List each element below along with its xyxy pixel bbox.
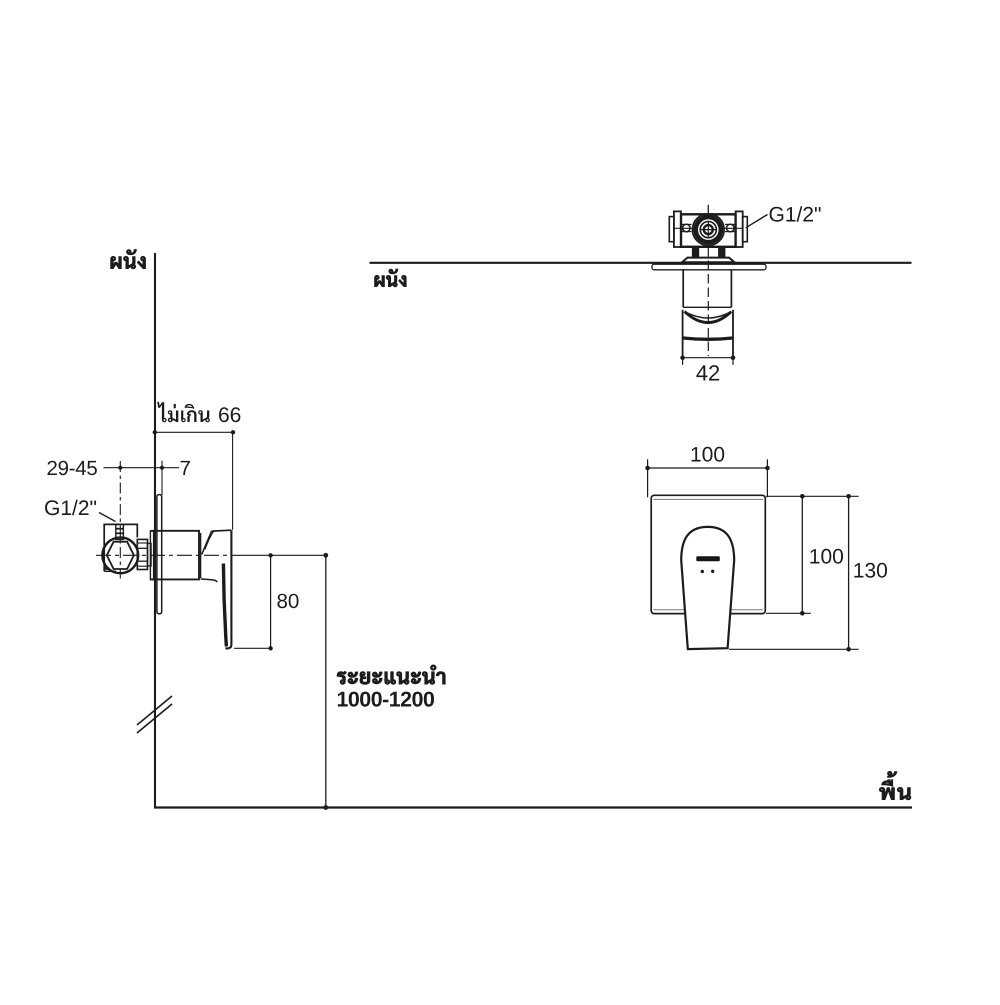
dimension max-66 line <box>154 431 233 433</box>
handle lever blade (side view) <box>223 564 226 647</box>
dim text 100 right <box>810 549 843 564</box>
escutcheon plate (front view) <box>651 495 765 613</box>
dimension 100 top (front view) <box>647 459 649 497</box>
handle neck bottom (side view) <box>201 579 218 582</box>
valve body (side view) <box>150 531 199 580</box>
valve neck columns <box>692 247 699 258</box>
handle sides (top view) <box>682 310 684 358</box>
inlet fitting nut <box>116 524 124 539</box>
dimension label max 66 <box>157 402 210 422</box>
left inlet flange <box>674 211 681 247</box>
inlet hex nut <box>107 542 134 569</box>
valve body (top view) <box>681 214 736 247</box>
inlet pipe circle G1/2 <box>102 537 138 573</box>
handle neck (top view) <box>682 270 684 308</box>
escutcheon plate (top view) <box>652 264 766 270</box>
dim text 100 top <box>692 447 725 462</box>
left port circle <box>682 223 692 225</box>
handle tip band (top view) <box>683 338 732 339</box>
dimension 100 right (front view) <box>801 496 803 613</box>
valve base trapezoid <box>682 258 735 263</box>
label text G1/2 top <box>770 206 821 221</box>
inlet fitting bottom bracket <box>104 570 116 572</box>
right inlet flange <box>736 211 743 247</box>
label recommended distance ระยะแนะนำ <box>337 665 445 684</box>
handle back edge (side view) <box>225 530 231 648</box>
cartridge crosshair <box>707 221 709 238</box>
label text G1/2 side <box>45 500 96 515</box>
centerline horizontal through valve <box>96 554 233 556</box>
centerline vertical through inlet <box>119 461 121 579</box>
union connector rings <box>137 539 147 569</box>
recommended height line <box>325 555 327 807</box>
dim text 42 <box>696 365 719 380</box>
extension lines right (front view) <box>766 495 859 497</box>
handle logo bar <box>696 556 720 561</box>
wall line (top view) <box>370 262 912 264</box>
floor line <box>154 806 912 808</box>
inlet fitting top bracket <box>104 524 137 571</box>
handle top edge (side view) <box>212 529 232 532</box>
dimension 42 <box>683 357 733 359</box>
valve body flange behind wall <box>150 531 153 580</box>
label floor พื้น <box>879 772 910 800</box>
dimension connector line to height dims <box>233 554 326 556</box>
handle neck slant (side view) <box>202 531 212 554</box>
escutcheon plate (side view) <box>157 495 162 614</box>
wall break marks <box>137 696 172 725</box>
dim text 80 <box>277 594 298 609</box>
dim text 130 <box>854 563 887 578</box>
label text 1000-1200 <box>338 692 434 707</box>
dim text 66 <box>219 407 240 422</box>
center line (top view) <box>707 205 709 214</box>
dim text 7 <box>181 461 190 475</box>
dim text 29-45 <box>48 461 97 476</box>
label wall (side view) ผนัง <box>111 250 146 269</box>
leader G1/2 (side view) <box>99 513 116 522</box>
right port circle <box>725 223 735 225</box>
label wall (top view) ผนัง <box>375 269 406 287</box>
handle dome arcs (top view) <box>685 312 732 319</box>
valve cartridge circles <box>693 214 725 246</box>
dimension 29-45 <box>104 467 180 469</box>
wall line (side view) <box>154 253 156 808</box>
leader G1/2 (top view) <box>746 215 768 228</box>
dimension 80 <box>270 555 272 648</box>
handle dots <box>701 570 704 573</box>
handle (front view) <box>681 527 734 649</box>
dimension 130 (front view) <box>848 496 850 649</box>
